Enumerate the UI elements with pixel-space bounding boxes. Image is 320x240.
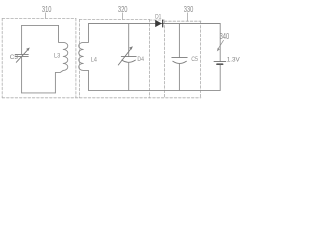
battery 340 long plate — [214, 60, 226, 62]
label 330 tick — [187, 13, 189, 21]
label 310 tick — [45, 13, 47, 19]
wire: main top (320 to battery) — [89, 23, 221, 25]
svg-text:D4: D4 — [137, 56, 144, 63]
wire: C5 branch lower — [178, 63, 180, 90]
svg-text:C3: C3 — [10, 54, 19, 61]
svg-text:L3: L3 — [54, 53, 61, 60]
wire: left loop top — [22, 24, 59, 26]
svg-text:340: 340 — [220, 32, 230, 41]
svg-text:1.3V: 1.3V — [227, 57, 240, 64]
wire: left loop right lower — [55, 70, 63, 93]
box 310 top — [2, 17, 76, 19]
wire: C3 branch lower — [21, 56, 23, 93]
left edge box 310 — [1, 18, 3, 97]
inductor L3 — [59, 25, 68, 70]
right edge box 330 — [200, 21, 202, 98]
wire: D4 branch lower — [128, 62, 130, 90]
wire: C3 branch upper — [21, 25, 23, 54]
diode D1 — [155, 20, 162, 27]
svg-text:D1: D1 — [155, 13, 162, 20]
battery 340 lower wire — [219, 65, 221, 90]
svg-text:320: 320 — [118, 5, 128, 14]
varactor D4 — [118, 48, 136, 65]
divider right edge of box 310 — [75, 18, 77, 97]
divider left edge of box 320 — [78, 19, 80, 97]
label 340 tick — [218, 40, 223, 48]
wire: D4 branch upper — [128, 24, 130, 57]
divider right edge of box 320 — [148, 19, 150, 97]
wire: main bottom (320 to battery) — [89, 89, 221, 91]
battery 340 short plate — [217, 63, 223, 65]
bottom dashed line — [2, 97, 201, 99]
box 320 top — [79, 18, 149, 20]
svg-text:C5: C5 — [191, 56, 198, 63]
svg-text:L4: L4 — [91, 57, 98, 64]
inductor L4 — [79, 24, 89, 91]
divider left edge of box 330 — [163, 21, 165, 98]
wire: left loop bottom — [22, 92, 56, 94]
battery 340 upper wire — [219, 24, 221, 62]
label 320 tick — [121, 13, 123, 20]
wire: C5 branch upper — [178, 24, 180, 58]
capacitor C3 — [15, 49, 28, 62]
top connector over diode — [149, 19, 164, 21]
capacitor C5 — [172, 57, 187, 63]
box 330 top — [164, 20, 201, 22]
dashed block boundaries (boxes 310/320/330) — [2, 18, 201, 97]
svg-text:310: 310 — [42, 5, 52, 14]
svg-text:330: 330 — [184, 5, 194, 14]
